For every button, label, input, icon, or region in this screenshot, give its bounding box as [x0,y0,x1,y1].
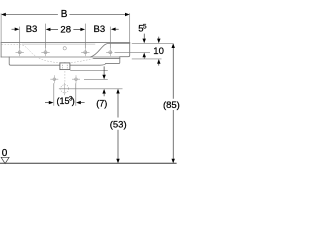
svg-text:28: 28 [60,24,71,35]
drain box inner dashes [62,65,67,69]
node rim-top extension right [132,42,173,44]
overflow hole [63,47,66,50]
wire ext line hole2 [45,24,47,49]
wire ext line 15-3 right [75,83,77,106]
dimension B3 right [115,28,119,30]
tap hole 1 [16,49,24,57]
wire bowl back rim edge [22,43,95,45]
dimension B3 left [12,28,16,30]
wire ext line B left [0,13,2,42]
wire left edge [0,43,2,57]
svg-text:(53): (53) [110,119,127,130]
svg-text:B3: B3 [93,24,105,35]
wire ext line 15-3 left [53,83,55,106]
node shelf extension right [132,58,162,60]
dimension B [5,14,125,16]
wire ext line hole3 [84,24,86,49]
drain box [60,63,70,70]
floor line [0,162,177,164]
wire lower body [9,57,120,65]
hidden bowl outline (dashed) [2,45,94,83]
svg-text:5: 5 [143,23,147,30]
wire ext line B right [129,13,131,43]
wire ext line hole4 [109,27,111,49]
node tap-hole extension right [115,51,151,53]
svg-text:10: 10 [153,46,164,57]
node trap centre extension [59,88,123,90]
svg-text:(15: (15 [56,96,69,106]
reference/extension lines [1,13,173,106]
svg-text:B: B [61,9,68,20]
tap hole 3 [81,49,89,57]
wire shelf diagonal edge [91,44,130,58]
node drain-box bottom extension [70,69,108,71]
washbasin outline (front view) [1,43,130,66]
wire right step plateau [120,43,130,57]
dimension (15-3) [45,102,49,104]
tap hole 4 [106,49,113,57]
wire rim top edge [1,42,130,44]
node mounting-hole extension [84,78,108,80]
trap hole symbol [61,83,69,96]
dimension (7) [103,66,105,75]
svg-text:(85): (85) [163,100,180,111]
mounting hole left [50,75,58,83]
dimension 28 [49,28,81,30]
tap hole 2 [41,49,49,57]
svg-text:B3: B3 [26,24,38,35]
wire drain centerline [64,62,66,82]
wire bowl hidden edge [2,45,94,63]
dimension (53) [117,93,119,160]
wire ext line hole1 [19,27,21,49]
wire shelf front edge [94,58,120,60]
mounting hole right [72,75,80,83]
svg-text:): ) [72,96,75,106]
datum triangle [1,157,9,163]
wire rim bottom edge [1,56,120,58]
dimension (85) [172,47,174,159]
svg-text:(7): (7) [96,98,107,108]
